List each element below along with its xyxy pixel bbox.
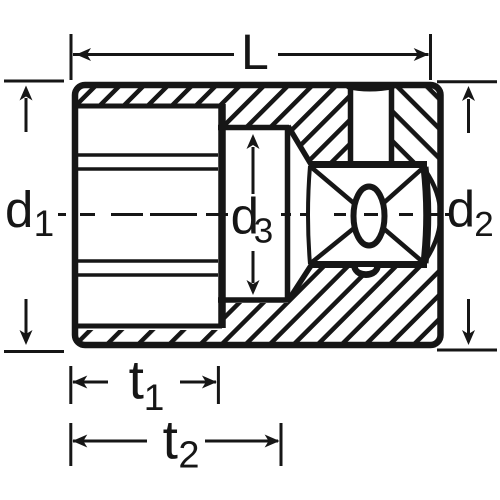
svg-text:1: 1	[34, 203, 55, 244]
collar bottom line	[218, 297, 289, 303]
drive X diagonal top-left	[311, 167, 369, 216]
svg-text:L: L	[241, 24, 269, 80]
d1 arrow up	[25, 98, 28, 132]
hex recess bottom wall line	[75, 324, 222, 329]
t1 extension tick right	[217, 366, 220, 404]
hatched band under hex recess	[75, 330, 221, 345]
hatched section, upper metal region	[75, 85, 348, 164]
hex flat line 2	[78, 167, 218, 171]
top edge sag over channel	[347, 87, 394, 90]
svg-text:t: t	[163, 409, 178, 471]
centerline	[58, 213, 450, 216]
square drive top line	[309, 161, 427, 168]
d1 extension tick bottom	[4, 350, 64, 353]
t1 extension tick left	[69, 366, 72, 404]
svg-text:t: t	[129, 349, 144, 411]
collar right edge	[285, 127, 291, 300]
hatched section, lower metal region	[221, 265, 440, 345]
ball detent bump	[351, 265, 381, 278]
square drive left edge	[308, 166, 310, 264]
d2 extension tick bottom	[437, 349, 497, 352]
svg-text:2: 2	[178, 435, 199, 477]
channel right wall	[389, 87, 395, 164]
funnel bottom diagonal	[288, 264, 312, 301]
svg-text:d: d	[447, 181, 475, 238]
hex flat line 4	[78, 273, 218, 277]
d2 arrow down	[467, 299, 470, 334]
L dimension line	[73, 53, 429, 56]
t2 dimension arrows	[73, 440, 147, 443]
L arrow left	[76, 48, 91, 61]
d2 arrow up	[467, 99, 470, 133]
drive X diagonal top-right	[369, 167, 424, 216]
hex recess right wall	[218, 104, 226, 328]
drive X diagonal bottom-left	[311, 216, 369, 263]
socket body outline	[75, 85, 441, 345]
ball hole ellipse	[354, 187, 385, 246]
t2 extension tick right	[280, 423, 283, 466]
d1 arrow down	[25, 299, 28, 334]
hex flat line 3	[78, 259, 218, 263]
square drive bottom line	[309, 261, 427, 268]
collar top line	[218, 125, 289, 131]
L extension tick left	[70, 34, 73, 80]
drive end arc	[425, 170, 441, 261]
svg-text:2: 2	[474, 205, 493, 244]
d3 dimension arrow	[252, 147, 255, 194]
L arrow right	[414, 48, 429, 61]
channel left wall	[348, 87, 354, 164]
hex recess top wall line	[75, 104, 222, 109]
svg-text:1: 1	[144, 377, 165, 418]
svg-text:d: d	[5, 181, 33, 238]
d2 extension tick top	[437, 80, 497, 83]
hatched section, upper-right metal region	[392, 85, 440, 164]
svg-text:3: 3	[254, 212, 273, 251]
square drive right edge	[425, 167, 428, 263]
t2 extension tick left	[69, 423, 72, 466]
drive X diagonal bottom-right	[369, 216, 424, 263]
funnel top diagonal	[288, 126, 312, 166]
L extension tick right	[429, 34, 432, 80]
hex flat line 1	[78, 153, 218, 157]
t1 dimension arrows	[73, 381, 108, 384]
d1 extension tick top	[4, 80, 64, 83]
